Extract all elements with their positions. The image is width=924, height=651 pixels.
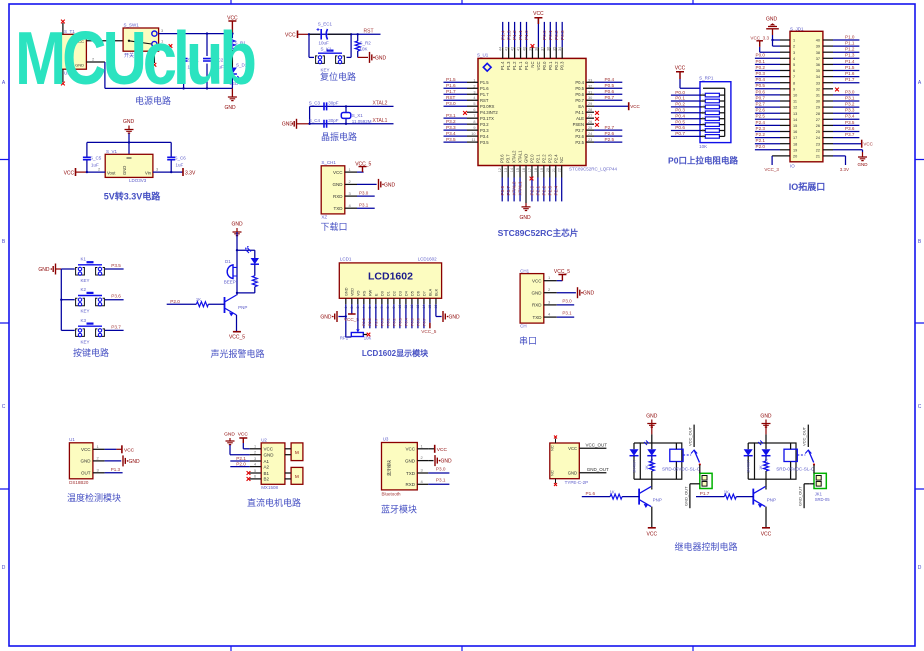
svg-text:3.3V: 3.3V <box>185 171 196 177</box>
svg-text:D2: D2 <box>392 291 396 296</box>
svg-text:VCC: VCC <box>81 447 91 452</box>
svg-text:晶振电路: 晶振电路 <box>321 131 357 142</box>
svg-text:VCC_5: VCC_5 <box>554 269 570 275</box>
svg-text:P3.5: P3.5 <box>845 120 855 125</box>
svg-text:B2: B2 <box>264 477 270 482</box>
svg-text:RXD: RXD <box>532 303 542 308</box>
GND VCC feeds of motor driver <box>224 432 250 455</box>
svg-text:P1.1: P1.1 <box>845 41 855 46</box>
svg-text:P0.3: P0.3 <box>398 318 402 326</box>
svg-text:LCD1602显示模块: LCD1602显示模块 <box>362 348 429 358</box>
svg-text:9: 9 <box>793 87 795 91</box>
relay indicator LED <box>758 441 770 469</box>
serial header CH1 <box>520 268 557 328</box>
bluetooth module U3 <box>382 437 429 497</box>
svg-text:33: 33 <box>816 81 820 85</box>
relay output terminal block <box>814 465 826 489</box>
key circuit trunk wire <box>60 269 62 330</box>
svg-text:P3.1: P3.1 <box>446 113 456 118</box>
svg-text:NC: NC <box>550 445 555 451</box>
svg-text:P3.0RX: P3.0RX <box>480 104 495 109</box>
IO header right pins <box>816 34 874 172</box>
svg-text:6: 6 <box>793 69 795 73</box>
GND feed of IO header pins 1-2 <box>766 17 790 47</box>
svg-text:VCC_OUT: VCC_OUT <box>802 426 807 446</box>
svg-text:30pF: 30pF <box>328 101 339 106</box>
relay coil box <box>755 443 797 479</box>
bluetooth VCC <box>428 445 447 453</box>
3.3V output of LDO <box>153 167 196 177</box>
svg-text:P3.0: P3.0 <box>359 191 369 196</box>
svg-text:16: 16 <box>793 130 797 134</box>
svg-text:KEY: KEY <box>81 339 90 344</box>
svg-text:P0.1: P0.1 <box>548 61 553 70</box>
relay coil element <box>784 443 805 479</box>
svg-text:2: 2 <box>349 179 352 184</box>
svg-text:P3.1: P3.1 <box>562 311 572 316</box>
relay part number label <box>662 467 701 472</box>
svg-text:Bluetooth: Bluetooth <box>382 491 402 496</box>
no-connect B1 B2 <box>247 471 251 475</box>
svg-text:25: 25 <box>816 130 820 134</box>
svg-text:GND: GND <box>766 17 778 23</box>
svg-text:S_JD1: S_JD1 <box>790 26 804 31</box>
wire T1 GND down to bottom rail <box>86 57 232 89</box>
svg-text:36: 36 <box>816 63 820 67</box>
svg-text:GND: GND <box>282 122 294 128</box>
svg-text:CH: CH <box>520 324 527 329</box>
svg-text:LCD1602: LCD1602 <box>368 271 413 283</box>
svg-text:P1.1: P1.1 <box>518 61 523 70</box>
IO header left pins <box>755 39 797 172</box>
svg-text:13: 13 <box>793 112 797 116</box>
svg-text:IO: IO <box>790 163 795 168</box>
svg-text:PSEN: PSEN <box>573 122 584 127</box>
LDO regulator S_V1 <box>105 149 153 183</box>
VCC_5 at alarm emitter <box>229 332 245 341</box>
svg-text:P0.6: P0.6 <box>416 318 420 326</box>
svg-text:P0.4: P0.4 <box>605 77 615 82</box>
svg-text:23: 23 <box>816 142 820 146</box>
svg-text:K1: K1 <box>81 257 87 262</box>
VCC_5 feed serial port <box>554 269 570 281</box>
svg-text:S_U1: S_U1 <box>477 53 489 58</box>
svg-text:12: 12 <box>793 106 797 110</box>
svg-text:GND: GND <box>568 471 577 476</box>
svg-text:26: 26 <box>816 124 820 128</box>
svg-text:P3.0: P3.0 <box>562 298 572 303</box>
wires P2.1 P2.0 to motor driver <box>230 456 249 467</box>
svg-text:P1.4: P1.4 <box>845 59 855 64</box>
svg-text:40: 40 <box>816 39 820 43</box>
svg-text:PNP: PNP <box>653 498 662 503</box>
svg-text:P0.5: P0.5 <box>675 119 685 124</box>
U1 top pins with net labels <box>499 11 565 70</box>
svg-text:2: 2 <box>793 45 795 49</box>
svg-text:P0.4: P0.4 <box>675 113 685 118</box>
svg-text:XZ: XZ <box>321 215 327 220</box>
svg-text:P3.6: P3.6 <box>500 185 505 195</box>
svg-text:TXD: TXD <box>334 206 344 211</box>
svg-text:P3.2: P3.2 <box>480 122 489 127</box>
relay part number label <box>776 467 815 472</box>
svg-text:GND: GND <box>583 291 595 297</box>
svg-text:P3.6: P3.6 <box>111 294 121 299</box>
svg-text:按键电路: 按键电路 <box>73 347 109 358</box>
VCC_3.3 feed of IO header pin 3 <box>750 35 790 52</box>
svg-text:6: 6 <box>702 117 704 121</box>
svg-text:3: 3 <box>793 51 795 55</box>
relay driver PNP transistor <box>753 487 776 528</box>
svg-text:XTAL2: XTAL2 <box>512 181 517 195</box>
svg-text:P2.6: P2.6 <box>368 318 372 326</box>
svg-text:P1.6: P1.6 <box>480 86 489 91</box>
svg-text:1K: 1K <box>645 465 649 470</box>
svg-text:VCC: VCC <box>532 279 542 284</box>
svg-text:GND: GND <box>344 287 348 296</box>
svg-text:VCC: VCC <box>761 532 772 538</box>
LCD pin1 GND wire <box>320 304 347 337</box>
svg-text:P0.5: P0.5 <box>756 83 766 88</box>
svg-text:P3.7: P3.7 <box>845 132 855 137</box>
svg-text:声光报警电路: 声光报警电路 <box>210 348 264 359</box>
capacitor S_C3 <box>309 101 339 111</box>
LED branch of alarm <box>236 246 259 294</box>
relay ground feed <box>760 414 772 444</box>
relay contact switch <box>688 425 701 466</box>
svg-text:P2.4: P2.4 <box>756 120 766 125</box>
svg-text:GND: GND <box>122 166 127 175</box>
svg-text:18: 18 <box>793 142 797 146</box>
svg-text:P0.1: P0.1 <box>386 318 390 326</box>
svg-text:P1.3: P1.3 <box>111 467 121 472</box>
svg-text:3: 3 <box>156 167 159 172</box>
svg-text:P3.2: P3.2 <box>446 119 456 124</box>
svg-text:P2.6: P2.6 <box>575 134 584 139</box>
svg-text:P1.3: P1.3 <box>506 30 511 40</box>
svg-text:P0.5: P0.5 <box>605 83 615 88</box>
svg-text:GND: GND <box>264 453 275 458</box>
svg-text:P2.0: P2.0 <box>170 299 180 304</box>
svg-text:D4: D4 <box>404 291 408 296</box>
svg-text:3: 3 <box>548 299 551 304</box>
svg-text:P1.2: P1.2 <box>845 47 855 52</box>
svg-text:P1.7: P1.7 <box>480 92 489 97</box>
svg-text:OUT: OUT <box>81 471 91 476</box>
svg-text:P0.1: P0.1 <box>756 59 766 64</box>
svg-text:NC: NC <box>550 470 555 476</box>
svg-text:10uF: 10uF <box>319 41 330 46</box>
svg-text:S_C4: S_C4 <box>309 118 321 123</box>
relay coil resistor <box>645 461 654 487</box>
svg-text:VCC_5: VCC_5 <box>421 329 437 334</box>
svg-text:4: 4 <box>793 57 795 61</box>
key K2 <box>61 287 104 314</box>
svg-text:VCC_5: VCC_5 <box>229 335 245 341</box>
svg-text:3: 3 <box>421 468 424 473</box>
relay contact switch <box>802 425 815 466</box>
svg-text:1K: 1K <box>759 465 763 470</box>
svg-text:9: 9 <box>702 134 704 138</box>
svg-text:P0口上拉电阻电路: P0口上拉电阻电路 <box>668 156 738 166</box>
resistor S_R1 <box>230 34 246 50</box>
svg-text:RP1: RP1 <box>340 335 349 340</box>
svg-text:VO: VO <box>356 290 360 296</box>
svg-text:P0.2: P0.2 <box>554 30 559 40</box>
svg-text:3: 3 <box>97 467 100 472</box>
svg-text:11.0592M: 11.0592M <box>352 119 372 124</box>
svg-text:2: 2 <box>421 455 424 460</box>
svg-text:P0.2: P0.2 <box>675 102 685 107</box>
svg-text:P0.6: P0.6 <box>605 89 615 94</box>
svg-text:P2.5: P2.5 <box>362 318 366 326</box>
resistor network elements and pins <box>671 90 725 139</box>
svg-text:P2.2: P2.2 <box>756 132 766 137</box>
svg-text:P0.0: P0.0 <box>675 90 685 95</box>
svg-text:M: M <box>295 450 299 455</box>
svg-text:P2.1: P2.1 <box>756 138 766 143</box>
svg-text:VCC_OUT: VCC_OUT <box>688 426 693 446</box>
bluetooth RXD wire P3.1 <box>428 478 449 485</box>
LCD backlight BLA wire VCC_5 <box>421 304 437 334</box>
VCC input to LDO <box>64 167 106 177</box>
svg-text:P1.4: P1.4 <box>500 30 505 40</box>
svg-text:复位电路: 复位电路 <box>320 71 356 82</box>
svg-text:VCC_5: VCC_5 <box>355 161 371 167</box>
LCD1602 pin stubs and numbers <box>344 287 438 308</box>
svg-text:P4.1: P4.1 <box>575 110 584 115</box>
svg-text:GND_OUT: GND_OUT <box>798 486 803 506</box>
svg-text:5: 5 <box>793 63 795 67</box>
ground serial port <box>557 287 595 298</box>
USB connector T1 <box>57 23 87 82</box>
svg-text:4: 4 <box>702 105 704 109</box>
net label P3.0 download <box>357 191 375 197</box>
svg-text:4: 4 <box>349 203 352 208</box>
svg-text:S_EC1: S_EC1 <box>318 22 333 27</box>
svg-text:1: 1 <box>421 443 424 448</box>
svg-text:28: 28 <box>816 112 820 116</box>
svg-text:GND: GND <box>320 315 332 321</box>
svg-text:P0.2: P0.2 <box>392 318 396 326</box>
svg-text:A: A <box>2 80 6 86</box>
svg-text:GND_OUT: GND_OUT <box>684 486 689 506</box>
svg-text:P2.5: P2.5 <box>605 137 615 142</box>
svg-text:P1.5: P1.5 <box>480 80 489 85</box>
svg-text:1K: 1K <box>724 490 729 495</box>
svg-text:DS18B20: DS18B20 <box>69 480 89 485</box>
svg-text:XTAL2: XTAL2 <box>512 150 517 163</box>
net label P3.1 download <box>357 203 375 209</box>
MCUclub watermark logo <box>15 15 253 101</box>
download header S_CH1 <box>321 160 357 220</box>
svg-text:P3.4: P3.4 <box>446 131 456 136</box>
svg-text:VCC_3: VCC_3 <box>764 167 779 172</box>
VCC_5 feed of download port <box>355 161 371 172</box>
svg-text:GND: GND <box>858 162 869 167</box>
temperature sensor U1 DS18B20 <box>69 437 105 485</box>
svg-text:P3.5: P3.5 <box>480 140 489 145</box>
svg-text:1K: 1K <box>610 490 615 495</box>
relay output terminal block <box>700 465 712 489</box>
svg-text:P0.1: P0.1 <box>675 96 685 101</box>
svg-text:P3.0: P3.0 <box>845 89 855 94</box>
wire reset top rail <box>308 33 381 35</box>
svg-text:P3.6: P3.6 <box>845 126 855 131</box>
svg-text:蓝牙模块: 蓝牙模块 <box>381 504 417 515</box>
relay indicator LED <box>644 441 656 469</box>
svg-text:SRD-05: SRD-05 <box>815 497 831 502</box>
svg-text:P0.6: P0.6 <box>756 89 766 94</box>
svg-text:B: B <box>2 239 6 245</box>
svg-text:P1.5: P1.5 <box>446 77 456 82</box>
svg-text:2: 2 <box>254 451 256 455</box>
svg-text:P2.2: P2.2 <box>541 185 546 195</box>
svg-text:21: 21 <box>816 155 820 159</box>
ground feed crystal circuit <box>282 119 310 129</box>
svg-text:U1: U1 <box>69 437 75 442</box>
svg-text:P3.3: P3.3 <box>446 125 456 130</box>
svg-text:GND: GND <box>224 105 236 111</box>
relay driver PNP transistor <box>639 487 662 528</box>
svg-text:6: 6 <box>254 475 256 479</box>
U1 bottom pins with net labels <box>498 150 564 221</box>
svg-text:B: B <box>918 239 922 245</box>
svg-text:P0.7: P0.7 <box>422 318 426 326</box>
LCD contrast potentiometer RP1 <box>340 304 372 340</box>
svg-text:30pF: 30pF <box>328 118 339 123</box>
svg-text:20: 20 <box>793 155 797 159</box>
svg-text:EA: EA <box>578 104 584 109</box>
relay coil element <box>670 443 691 479</box>
svg-text:1N4007: 1N4007 <box>633 460 637 473</box>
svg-text:XTAL1: XTAL1 <box>518 150 523 163</box>
svg-text:10K: 10K <box>360 47 368 52</box>
svg-text:GND: GND <box>646 414 658 420</box>
svg-text:P0.5: P0.5 <box>410 318 414 326</box>
bluetooth GND <box>428 455 452 466</box>
svg-text:NC: NC <box>530 62 535 68</box>
svg-text:P3.1: P3.1 <box>436 478 446 483</box>
svg-text:A: A <box>918 80 922 86</box>
ground symbol LDO <box>123 119 135 142</box>
svg-text:1N4007: 1N4007 <box>747 460 751 473</box>
svg-text:P2.4: P2.4 <box>553 185 558 195</box>
svg-text:P0.4: P0.4 <box>404 318 408 326</box>
svg-text:4: 4 <box>421 479 424 484</box>
svg-text:P4.3INT2: P4.3INT2 <box>480 110 498 115</box>
svg-text:P1.4: P1.4 <box>500 61 505 70</box>
svg-text:P0.2: P0.2 <box>554 61 559 70</box>
svg-text:KEY: KEY <box>81 278 90 283</box>
svg-text:S_C3: S_C3 <box>309 101 321 106</box>
serial P3.0 wire <box>557 298 574 305</box>
svg-text:P1.6: P1.6 <box>586 491 596 496</box>
MCU U1 body <box>477 53 618 172</box>
svg-text:P3.6: P3.6 <box>500 154 505 163</box>
svg-text:C: C <box>2 404 6 410</box>
svg-text:P0.7: P0.7 <box>756 95 766 100</box>
TYPE-C connector <box>550 436 589 487</box>
motor connector M1 <box>285 443 303 461</box>
svg-text:P0.2: P0.2 <box>756 65 766 70</box>
svg-text:3: 3 <box>349 191 352 196</box>
svg-text:P2.5: P2.5 <box>756 114 766 119</box>
svg-text:GND: GND <box>38 267 50 273</box>
svg-text:P3.0: P3.0 <box>446 101 456 106</box>
key K3 <box>61 318 104 345</box>
svg-text:PNP: PNP <box>238 305 247 310</box>
svg-text:P0.7: P0.7 <box>675 131 685 136</box>
svg-text:VCC_5: VCC_5 <box>344 317 360 322</box>
wire SW1 pin3 to VCC rail <box>159 28 233 34</box>
LED S_D1 <box>228 50 248 88</box>
svg-text:P0.3: P0.3 <box>756 71 766 76</box>
svg-text:继电器控制电路: 继电器控制电路 <box>674 541 737 552</box>
svg-text:BEEP: BEEP <box>224 280 236 285</box>
VCC at relay transistor emitter <box>761 528 772 538</box>
svg-text:P1.1: P1.1 <box>518 30 523 40</box>
svg-text:RS: RS <box>362 290 366 296</box>
svg-text:P0.3: P0.3 <box>675 108 685 113</box>
junction dots power rails <box>182 32 184 34</box>
svg-text:RST: RST <box>364 29 374 35</box>
svg-text:TXD: TXD <box>406 471 416 476</box>
bluetooth TXD wire P3.0 <box>428 466 449 473</box>
svg-text:P1.3: P1.3 <box>506 61 511 70</box>
svg-text:VCC: VCC <box>333 170 343 175</box>
ground symbol power circuit <box>224 88 236 111</box>
svg-text:1: 1 <box>793 39 795 43</box>
svg-text:VCC: VCC <box>675 65 686 71</box>
svg-text:GND: GND <box>532 291 543 296</box>
ground feed alarm circuit <box>231 222 243 251</box>
relay coil resistor <box>759 461 768 487</box>
svg-text:S_V1: S_V1 <box>106 149 118 154</box>
svg-text:19: 19 <box>793 148 797 152</box>
key S_K1 <box>309 34 351 72</box>
svg-text:P2.0: P2.0 <box>236 461 246 466</box>
svg-text:P3.2: P3.2 <box>845 102 855 107</box>
electrolytic capacitor S_EC1 <box>309 22 351 46</box>
svg-text:GND: GND <box>384 182 396 188</box>
svg-text:MX1508: MX1508 <box>261 485 278 490</box>
svg-text:14: 14 <box>793 118 797 122</box>
svg-text:P1.0: P1.0 <box>524 30 529 40</box>
svg-text:1: 1 <box>254 445 256 449</box>
capacitor C2 <box>203 34 224 89</box>
relay GND_OUT wire <box>798 484 814 508</box>
svg-text:P3.5: P3.5 <box>446 137 456 142</box>
svg-text:GND: GND <box>231 222 243 228</box>
svg-text:1uF: 1uF <box>176 163 184 168</box>
svg-text:P3.1TX: P3.1TX <box>480 116 494 121</box>
alarm top rail <box>236 249 255 251</box>
relay base resistor 1K <box>696 490 753 500</box>
caption STC89C52RC主芯片 <box>498 227 579 238</box>
svg-text:S_R2: S_R2 <box>360 41 372 46</box>
svg-text:P3.1: P3.1 <box>359 203 369 208</box>
svg-text:17: 17 <box>793 136 797 140</box>
svg-text:P2.0: P2.0 <box>756 144 766 149</box>
svg-text:P0.3: P0.3 <box>560 61 565 70</box>
svg-text:34: 34 <box>816 75 820 79</box>
svg-text:GND: GND <box>519 215 531 221</box>
svg-text:VDD: VDD <box>350 288 354 296</box>
svg-text:P2.1: P2.1 <box>536 185 541 195</box>
svg-text:P1.0: P1.0 <box>524 61 529 70</box>
svg-text:P2.7: P2.7 <box>605 125 615 130</box>
